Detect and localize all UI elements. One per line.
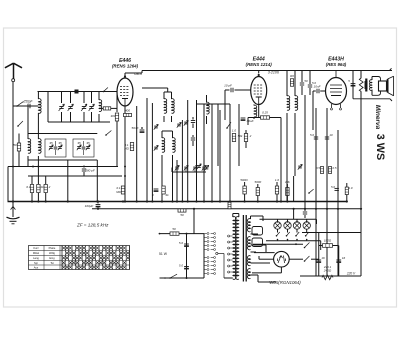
svg-text:Platte: Platte [49,246,56,250]
wire top rail [302,232,361,234]
tube E443H (RES964) [326,57,347,111]
resistor [244,130,251,148]
trimmer row 2 [184,165,188,172]
switch [308,189,313,194]
wire [196,100,198,202]
ground main [7,202,20,224]
resistor R2 [26,176,33,202]
trimmer [184,120,188,125]
rectifier tube W05 (RGN1064) [269,251,301,284]
fuse lamp 1 [276,229,280,241]
svg-text:(RENS 1264): (RENS 1264) [112,63,139,68]
wire grid return [315,108,317,276]
transformer secondary windings [248,216,251,279]
transformer primary winding [224,214,236,280]
speaker cone [388,76,394,96]
dial lamp 4 [303,219,310,229]
resistor field [359,78,363,92]
wire [193,209,195,234]
wire [219,110,221,202]
wire [337,130,339,276]
junction [124,166,126,178]
junction [186,233,188,279]
svg-text:5.0: 5.0 [179,241,184,245]
svg-text:5.0: 5.0 [331,185,335,189]
wire [162,130,173,132]
wire [96,133,98,135]
wire [262,216,264,219]
wire chassis rail [8,201,348,203]
wire [181,120,183,202]
wire rect cathode left [254,253,275,260]
speaker magnet [379,81,387,91]
wire [338,246,340,277]
trimmer [154,124,158,129]
wire HT rail top [142,70,392,72]
capacitor [308,71,317,96]
voltage selector plug board [204,233,224,279]
capacitor [179,264,189,270]
variable capacitor C4 [89,92,95,123]
wire antenna input rail [13,105,38,107]
wire bottom rail [300,275,361,277]
wire [294,120,296,176]
HT winding box 2 [252,238,263,247]
svg-text:10 pF: 10 pF [224,84,232,88]
wire [312,91,314,130]
svg-text:1: 1 [152,193,154,197]
capacitor electrolytic 1 [316,256,325,263]
junction dots chassis rail [12,200,348,202]
trimmer row 1 [175,165,179,172]
tube E444 (RENS1214) [246,57,279,105]
resistor 0.1M [124,143,134,151]
IF transformer 1 primary [164,92,167,122]
wire [326,108,328,276]
capacitor in box1 [54,141,58,155]
resistor R3 [37,176,44,202]
wire [238,104,240,166]
svg-text:0.5: 0.5 [316,166,320,170]
wire [136,106,138,202]
wire [311,241,321,260]
svg-text:50: 50 [180,213,184,217]
coil L2 [38,113,41,176]
wire [187,100,189,202]
wire [12,106,14,202]
wire [125,71,142,79]
capacitor speaker [0,0,1,1]
wire fuse rail [266,240,321,242]
wire [293,176,295,202]
antenna [5,63,22,81]
wire anode rail [253,243,303,245]
trimmer T4 [86,141,90,150]
wire antenna lead [12,82,14,106]
wire rect out [289,258,303,260]
svg-text:50: 50 [304,79,308,83]
svg-text:Spr: Spr [34,261,38,265]
svg-text:50: 50 [13,143,17,147]
resistor grid-stopper [99,107,117,110]
wire [251,251,257,253]
svg-text:0.1: 0.1 [26,185,31,189]
coil L2 upper [38,92,41,114]
svg-text:35: 35 [77,141,81,145]
svg-text:2: 2 [48,185,51,189]
wire rail hooks [353,68,392,101]
wire [47,92,49,123]
wire [211,104,213,202]
output transformer winding [370,77,372,96]
wire rail y91 [38,91,118,93]
resistor [290,74,294,86]
resistor 500 [240,178,248,202]
wire [96,160,98,202]
resistor left 1 [13,134,20,167]
wire [360,211,362,276]
wire [197,103,231,105]
trimmer T1 [49,141,53,150]
wire primary feed [160,233,205,235]
switch antenna [16,101,23,106]
IF transformer 3 primary [287,71,290,121]
resistor on rail [178,209,186,217]
svg-text:Ultra: Ultra [134,72,142,76]
wire rect bottom [252,267,281,273]
wire [172,160,174,202]
dial lamp 2 [284,219,291,229]
wire [161,160,163,202]
dial lamp 1 [274,219,281,229]
variable capacitor C1 [59,92,65,123]
capacitor 250pF antenna [22,100,33,109]
switch wave-change [13,121,23,127]
svg-text:10nF: 10nF [313,85,321,89]
svg-text:R6: R6 [290,74,294,78]
svg-text:MΩ: MΩ [124,147,129,151]
svg-text:2: 2 [249,134,252,138]
switch rect 1 [304,243,310,249]
text 51W [159,252,168,256]
transformer core [243,215,246,282]
trimmer box 2 [73,139,94,157]
svg-text:(RENS 1214): (RENS 1214) [246,62,273,67]
resistor [162,186,169,197]
IF transformer 2 secondary [173,131,176,160]
text ZF [76,223,109,228]
capacitor [325,133,333,139]
wire [258,71,260,74]
svg-text:500Ω: 500Ω [240,178,248,182]
wire [116,92,118,113]
svg-text:Lang: Lang [33,256,39,260]
coil osc coupling [207,95,210,124]
junction [12,166,14,168]
wire [186,234,188,278]
output transformer core [365,79,367,92]
wire [217,104,219,166]
resistor 240ohm [322,265,333,280]
svg-text:Wdlg: Wdlg [49,251,55,255]
svg-text:Tst: Tst [50,261,54,265]
resistor 5000 [254,180,261,202]
wire [251,233,259,235]
capacitor [348,79,355,87]
coil antenna L1 [28,106,31,167]
speaker frame [372,77,381,96]
wire [251,245,267,252]
capacitor [191,135,195,146]
capacitor [365,71,367,90]
resistor 10k [285,180,290,202]
variable capacitor C3 [81,92,87,123]
fuse lamp 4 [305,229,309,241]
svg-text:3 WS: 3 WS [374,134,386,160]
IF transformer 3 secondary [295,71,298,121]
trimmer [154,145,158,150]
wire HT return rail [92,208,361,210]
wire [319,245,339,247]
svg-text:35: 35 [58,141,62,145]
fuse lamp 2 [286,229,290,241]
resistor [316,166,324,174]
wire [247,118,249,126]
svg-text:MΩ: MΩ [116,190,121,194]
capacitor electrolytic 2 [336,256,345,263]
svg-text:1.0: 1.0 [275,178,280,182]
transformer tap circles [228,235,233,273]
dial lamp 3 [293,219,300,229]
transformer primary inner [233,214,239,280]
svg-text:5.0: 5.0 [310,133,314,137]
trimmer T3 [77,141,81,150]
capacitor [300,71,308,96]
trimmer [177,122,181,127]
electrolytic 30uF [241,118,255,123]
wire cathode [124,106,126,202]
svg-text:3-2106: 3-2106 [268,70,279,74]
svg-text:250pF: 250pF [22,100,33,104]
svg-text:1.0: 1.0 [348,186,352,190]
svg-text:Kurz: Kurz [33,246,39,250]
coil IF feed [254,104,257,119]
wire [293,209,295,220]
resistor R4 [44,176,51,202]
fuse lamp 3 [295,229,299,241]
wire AVC rail [8,166,118,168]
resistor [170,227,179,235]
svg-text:Minerva: Minerva [374,105,381,130]
wire trimmer bar [172,168,206,173]
capacitor in box2 [82,141,86,155]
capacitor [303,209,307,218]
capacitor 280pF [82,169,95,177]
svg-text:100μF: 100μF [85,204,94,208]
IF transformer 1 secondary [172,92,175,122]
variable capacitor C2 [68,92,74,123]
junction [37,166,39,168]
wire [280,118,282,202]
trimmer box 1 [45,139,66,157]
wire [322,90,326,92]
svg-text:4k: 4k [165,193,169,197]
wire [251,275,277,282]
wire mid rail y176 [28,175,122,177]
capacitor [310,133,318,139]
capacitor 10pF grid [224,84,250,93]
switch on rail [103,87,108,92]
wire heater top [251,216,264,221]
wire y117 rail [248,117,281,119]
svg-text:2x0.1: 2x0.1 [323,265,332,269]
resistor 180 [323,239,333,248]
svg-text:10k: 10k [285,180,290,184]
svg-text:50: 50 [172,227,176,231]
wire [7,167,9,202]
wire [286,120,288,202]
svg-text:1.0: 1.0 [232,129,237,133]
text Minerva 3WS [374,105,386,160]
wire [142,88,172,92]
wire [251,262,271,264]
resistor [110,106,118,167]
junction [159,233,161,235]
trimmer row 3 [193,165,197,172]
resistor [329,166,337,174]
switch rect 2 [304,256,310,262]
resistor [261,111,270,120]
wire [151,103,153,202]
wire lamp rail [260,219,317,224]
junction [32,166,85,168]
svg-text:180Ω: 180Ω [324,239,332,243]
svg-text:ZF = 128,5 kHz: ZF = 128,5 kHz [76,223,109,228]
resistor 50k [232,129,243,142]
capacitor 100uF [85,204,101,208]
svg-text:51 W: 51 W [159,252,168,256]
wire anode [258,105,260,118]
svg-text:W05(RGN1064): W05(RGN1064) [269,280,301,285]
capacitor [331,185,339,190]
wire [360,71,362,277]
wire [224,90,226,120]
svg-text:Eing: Eing [49,256,55,260]
capacitor [191,117,195,128]
IF transformer 2 primary [162,131,165,160]
svg-text:220 V: 220 V [346,272,356,276]
svg-text:10: 10 [329,133,333,137]
resistor 0.1M b [116,186,125,194]
switch mains [164,274,177,279]
svg-text:300: 300 [110,114,115,118]
svg-text:16: 16 [342,256,346,260]
coil L3 [99,92,102,123]
wire [229,104,231,202]
HT winding box 1 [252,227,263,236]
trimmer [197,164,201,169]
svg-text:(RES 964): (RES 964) [326,62,347,67]
switch [226,122,231,129]
svg-text:50k: 50k [238,134,243,138]
text 220V [346,272,356,276]
trimmer row 4 [202,165,206,172]
junction sq [75,90,79,94]
svg-text:Aus: Aus [34,265,39,269]
svg-text:240Ω: 240Ω [323,269,332,273]
svg-text:Mittel: Mittel [33,251,40,255]
table wave-band switch chart [29,246,130,270]
resistor on chassis rail [228,202,231,209]
resistor [345,183,353,202]
wire [146,98,148,202]
svg-text:35: 35 [49,141,53,145]
svg-text:400: 400 [125,109,130,113]
capacitor coupling [313,85,323,94]
wire [176,160,178,202]
wire osc top rail [28,133,97,135]
resistor 1.0 [275,178,280,202]
wire [318,233,320,277]
svg-text:280 pF: 280 pF [84,169,95,173]
svg-text:1k: 1k [40,185,44,189]
wire [203,104,205,202]
wire [67,160,69,202]
resistor anode [124,109,132,117]
trimmer [204,165,208,170]
svg-text:16: 16 [321,256,325,260]
capacitor [179,241,189,247]
trimmer [298,164,302,169]
svg-text:50nF: 50nF [131,126,139,130]
svg-text:35: 35 [86,141,90,145]
capacitor 50nF [131,126,144,133]
wire [346,182,348,184]
junction dots return rail [97,208,362,210]
wire osc bottom rail [28,159,97,161]
wire [304,95,306,209]
switch band [105,131,111,136]
tube E446 (RENS1264) [112,58,142,106]
svg-text:0.25: 0.25 [262,111,268,115]
trimmer T2 [58,141,62,150]
svg-text:5000: 5000 [254,180,261,184]
wire tuning bottom rail [48,121,110,123]
svg-text:0.5: 0.5 [332,166,336,170]
electrolytic 1uF [152,189,158,197]
svg-text:5.0: 5.0 [179,264,184,268]
wire bottom primary [160,277,205,279]
wire [97,202,99,209]
